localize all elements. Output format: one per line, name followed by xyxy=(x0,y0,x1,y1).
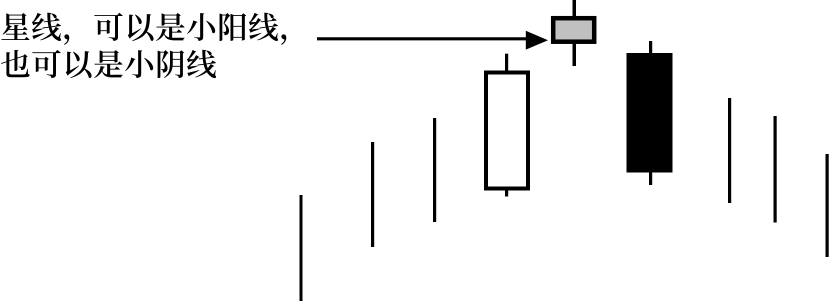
candle 4 lower wick xyxy=(505,190,508,197)
candle 2: shadow line xyxy=(371,142,374,247)
annotation text line 1: 星线，可以是小阳线， xyxy=(1,13,286,45)
candle 5 (star) upper wick xyxy=(573,0,577,16)
candle 3: shadow line xyxy=(433,118,436,222)
candle 6 upper wick xyxy=(649,41,652,53)
candle 8: shadow line xyxy=(774,116,777,223)
candle 7: shadow line xyxy=(728,98,731,203)
candle 1: tall left shadow line xyxy=(300,195,303,301)
candle 9: shadow line at right edge xyxy=(826,154,829,257)
arrow pointing to star candle xyxy=(317,31,548,50)
candle 5: gray star body xyxy=(553,18,594,42)
candle 4: white bullish body xyxy=(486,73,528,189)
candle 6 lower wick xyxy=(649,173,652,186)
candle 4 upper wick xyxy=(505,54,508,71)
candle 5 (star) lower wick xyxy=(573,44,577,66)
candle 6: black bearish body xyxy=(627,53,673,173)
annotation text line 2: 也可以是小阴线 xyxy=(1,50,216,78)
